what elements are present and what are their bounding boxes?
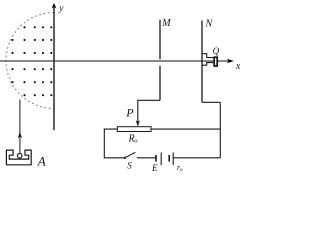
svg-text:P: P xyxy=(125,106,134,120)
Q detector plate xyxy=(214,57,217,66)
y-axis xyxy=(53,5,55,130)
svg-text:Ro: Ro xyxy=(128,133,139,144)
particle circle in source xyxy=(17,153,22,158)
magnetic field dots xyxy=(11,26,52,96)
x-axis xyxy=(0,60,231,62)
wire from M down-left to potentiometer wiper xyxy=(138,100,160,121)
switch S blade xyxy=(125,152,135,158)
svg-text:x: x xyxy=(235,61,240,72)
wiper arrowhead P xyxy=(136,120,140,126)
y-axis arrowhead xyxy=(52,3,57,8)
svg-text:M: M xyxy=(161,18,171,29)
wire switch to battery xyxy=(137,157,156,159)
Q holder bracket upper arm xyxy=(202,54,213,58)
wire N plate to right vertical xyxy=(202,101,220,103)
svg-text:N: N xyxy=(205,19,214,30)
plate M upper segment xyxy=(159,20,161,60)
svg-text:S: S xyxy=(127,160,132,170)
right vertical wire xyxy=(219,102,221,158)
svg-text:A: A xyxy=(37,153,46,168)
battery cell 1 long plate xyxy=(160,153,162,166)
resistor R0 box xyxy=(117,127,151,132)
battery cell 2 long plate xyxy=(172,153,174,166)
svg-text:y: y xyxy=(58,4,64,14)
battery cell 2 short plate xyxy=(168,155,170,162)
particle velocity line xyxy=(19,100,21,154)
battery cell 1 short plate xyxy=(155,155,157,162)
wire R0 right to right vertical xyxy=(151,128,220,130)
field region dashed boundary (left semicircle) xyxy=(6,13,54,109)
particle source A body xyxy=(6,150,31,165)
svg-text:E: E xyxy=(151,163,158,172)
Q holder bracket lower arm xyxy=(202,63,213,66)
velocity arrowhead xyxy=(18,131,22,138)
wire R0 left to bottom-left corner xyxy=(104,129,124,158)
switch S contact dot xyxy=(124,157,126,159)
x-axis arrowhead xyxy=(227,59,234,63)
wire battery to right corner xyxy=(173,157,220,159)
plate M lower segment xyxy=(159,66,161,101)
svg-text:ro: ro xyxy=(177,163,183,172)
plate N xyxy=(201,21,203,103)
svg-text:Q: Q xyxy=(213,46,220,56)
